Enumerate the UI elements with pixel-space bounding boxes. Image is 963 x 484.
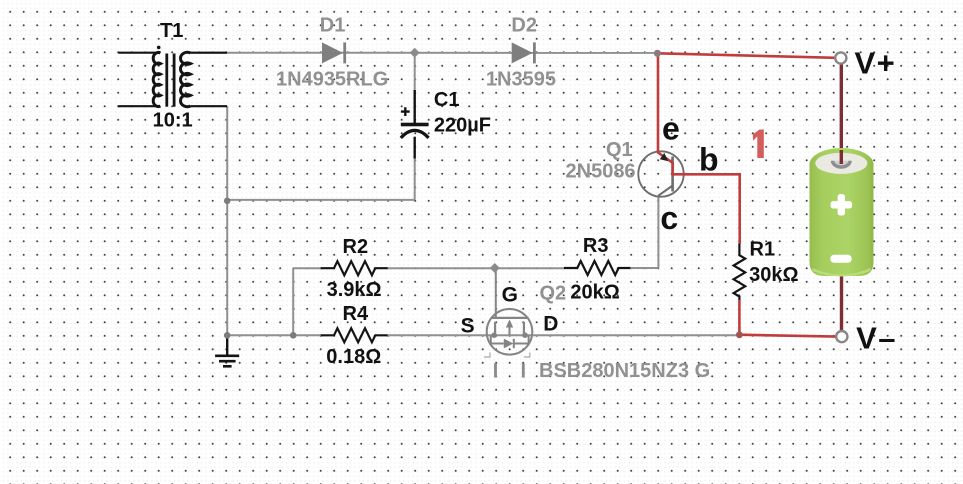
svg-text:3.9kΩ: 3.9kΩ — [327, 279, 382, 301]
svg-text:220µF: 220µF — [434, 114, 491, 136]
svg-text:R1: R1 — [750, 239, 776, 261]
svg-text:e: e — [662, 111, 680, 147]
svg-text:1N4935RLG: 1N4935RLG — [276, 68, 388, 90]
svg-text:D1: D1 — [320, 14, 346, 36]
svg-text:10:1: 10:1 — [153, 110, 193, 132]
svg-text:b: b — [699, 142, 719, 178]
svg-text:20kΩ: 20kΩ — [570, 281, 619, 303]
svg-text:1N3595: 1N3595 — [486, 68, 556, 90]
svg-text:R3: R3 — [583, 235, 609, 257]
svg-text:T1: T1 — [160, 20, 183, 42]
svg-text:BSB280N15NZ3 G: BSB280N15NZ3 G — [539, 360, 710, 382]
svg-text:G: G — [502, 284, 518, 307]
svg-text:2N5086: 2N5086 — [566, 161, 636, 183]
svg-text:c: c — [660, 200, 678, 236]
svg-text:C1: C1 — [434, 89, 460, 111]
svg-text:Q2: Q2 — [540, 283, 567, 305]
svg-text:Q1: Q1 — [606, 139, 633, 161]
svg-text:0.18Ω: 0.18Ω — [326, 346, 381, 368]
svg-text:D: D — [543, 312, 558, 335]
svg-text:D2: D2 — [511, 14, 537, 36]
svg-text:R4: R4 — [343, 303, 369, 325]
svg-text:R2: R2 — [343, 236, 369, 258]
svg-text:S: S — [461, 315, 475, 338]
svg-text:V+: V+ — [855, 46, 897, 81]
svg-text:30kΩ: 30kΩ — [749, 264, 798, 286]
svg-text:V–: V– — [856, 320, 897, 355]
